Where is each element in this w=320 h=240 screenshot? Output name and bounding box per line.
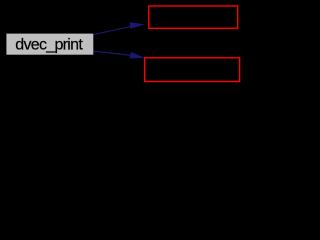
node top (truncated, red) [149,6,238,28]
node bottom (truncated, red) [145,58,240,82]
wire to bottom node [93,51,143,58]
svg-text:dvec_print: dvec_print [15,36,83,53]
node dvec_print [6,33,94,56]
wire to top node [93,23,143,35]
